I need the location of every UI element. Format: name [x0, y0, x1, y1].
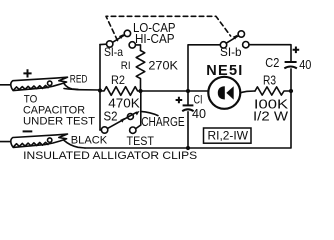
wire: S2 pivot lead	[100, 129, 101, 131]
svg-text:SI-b: SI-b	[220, 46, 242, 59]
node A junction dot (red lead / R2 / S1-a / S2 vertical)	[98, 88, 102, 92]
resistor R3 100K horizontal zigzag	[255, 87, 291, 95]
box note R1,2-1W	[204, 128, 252, 143]
wire: top rail left segment (C1 line up to S1-b pivot)	[188, 45, 220, 91]
wire: S1-b right contact to right vertical rail	[249, 45, 291, 61]
switch S2 pivot contact	[101, 127, 107, 133]
svg-text:RI: RI	[121, 60, 131, 72]
resistor R2 470K horizontal zigzag	[100, 87, 141, 96]
wire: lamp to R3	[240, 91, 255, 93]
node B junction dot (R1/R2/middle rail/S2 branch)	[138, 89, 142, 93]
resistor R1 270K vertical zigzag	[136, 51, 145, 92]
dashed gang line S1-a to S1-b	[106, 16, 231, 40]
node D junction dot (R3 / C2 / right rail)	[289, 89, 293, 93]
svg-text:270K: 270K	[148, 60, 178, 72]
leader curve from S2 arm tip toward CHARGE label	[141, 111, 158, 115]
switch S1-a LO-CAP throw contact	[124, 30, 130, 36]
switch S1-b right throw contact	[243, 42, 249, 48]
svg-text:INSULATED ALLIGATOR CLIPS: INSULATED ALLIGATOR CLIPS	[23, 150, 197, 162]
switch S1-b pivot contact	[220, 42, 226, 48]
svg-text:R3: R3	[263, 74, 276, 88]
wire: C1 bottom lead	[187, 112, 189, 148]
wire: black clip to ground rail	[64, 140, 85, 148]
switch S2 TEST throw contact	[130, 127, 136, 133]
switch S2 CHARGE throw contact	[127, 114, 133, 120]
svg-text:I/2 W: I/2 W	[253, 109, 288, 123]
svg-text:TEST: TEST	[127, 134, 155, 148]
wire: C2 bottom to node D	[290, 69, 292, 91]
lamp NE51 neon bulb	[208, 77, 240, 109]
svg-text:S2: S2	[104, 110, 118, 124]
label + (C2)	[293, 47, 300, 54]
wire: red test lead from clip to node A	[64, 89, 100, 91]
svg-text:40: 40	[192, 106, 206, 121]
svg-text:C2: C2	[265, 56, 279, 70]
svg-text:HI-CAP: HI-CAP	[135, 31, 175, 46]
svg-text:NE5I: NE5I	[206, 63, 242, 79]
wire: S1-a pivot lead	[100, 43, 106, 45]
wire: middle rail from node B to lamp	[141, 90, 209, 92]
svg-text:BLACK: BLACK	[71, 134, 108, 146]
svg-text:RI,2-IW: RI,2-IW	[208, 129, 249, 143]
black alligator clip	[0, 134, 68, 147]
svg-text:CI: CI	[194, 93, 203, 107]
svg-text:R2: R2	[111, 73, 125, 87]
svg-text:UNDER TEST: UNDER TEST	[23, 116, 95, 128]
capacitor C2 plates	[285, 61, 297, 63]
wire: left vertical bus x=100 from S1-a pivot down to S2 pivot	[99, 45, 101, 130]
node E junction dot (C1 bottom on ground rail)	[186, 146, 190, 150]
red alligator clip	[0, 77, 78, 90]
wire: right vertical rail down to bottom rail	[85, 91, 291, 148]
svg-text:CHARGE: CHARGE	[141, 114, 185, 129]
svg-text:40: 40	[299, 57, 311, 72]
svg-text:RED: RED	[70, 74, 88, 86]
switch S1-a pivot contact	[107, 41, 113, 47]
switch S2 arm with arrowheads	[108, 111, 140, 128]
switch S1-a HI-CAP throw contact	[129, 42, 135, 48]
node C junction dot (C1 top)	[186, 89, 190, 93]
svg-text:470K: 470K	[108, 96, 140, 111]
label + (red lead)	[23, 69, 31, 77]
svg-text:SI-a: SI-a	[104, 46, 123, 59]
label - (black lead)	[23, 130, 33, 132]
wire: S2 branch vertical from node B down to TEST contact	[136, 91, 141, 129]
switch S1-b arm with arrowhead	[226, 35, 238, 44]
capacitor C1 plates	[183, 104, 194, 106]
label + (C1)	[176, 97, 183, 104]
wire: HI-CAP contact to R1 top	[136, 45, 141, 51]
wire: C1 top lead	[187, 91, 189, 104]
switch S1-a arm with arrowhead	[113, 34, 125, 42]
switch S1-b upper (open) throw contact	[238, 31, 244, 37]
